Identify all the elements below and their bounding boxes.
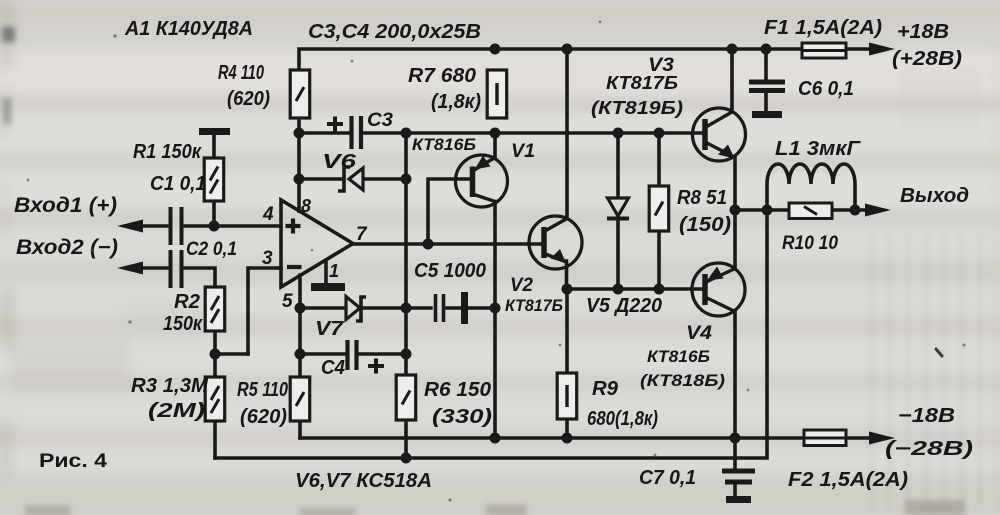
resistor R3 — [205, 377, 225, 421]
svg-text:5: 5 — [282, 291, 293, 312]
wire V3 emitter / V4 emitter column — [733, 157, 737, 269]
svg-text:С1 0,1: С1 0,1 — [150, 173, 206, 195]
wire op-amp pin 8 lead — [297, 179, 301, 211]
svg-text:С2 0,1: С2 0,1 — [186, 239, 237, 260]
capacitor C7 — [722, 438, 755, 503]
op-amp minus sign — [287, 265, 302, 269]
inductor L1 — [767, 164, 855, 210]
op-amp pin 1 stub and chassis bar — [324, 261, 328, 284]
resistor R9 — [557, 373, 577, 419]
arrow -18V — [869, 432, 895, 445]
zener V7 — [346, 297, 366, 322]
svg-text:R7 680: R7 680 — [408, 65, 476, 87]
op-amp plus sign — [286, 219, 301, 234]
svg-text:КТ817Б: КТ817Б — [606, 73, 678, 93]
capacitor C6 — [749, 49, 785, 118]
svg-text:(620): (620) — [240, 406, 287, 428]
wire inverting node line (R2/R3 to C4) — [215, 352, 406, 356]
svg-text:V7: V7 — [315, 318, 344, 340]
fuse F1 — [802, 43, 846, 58]
wire op-amp pin 5 / R5 column — [298, 275, 302, 438]
svg-text:R6 150: R6 150 — [424, 379, 491, 401]
svg-text:(−28В): (−28В) — [885, 438, 973, 460]
wire bottom common rail (R3 bottom to output feedback riser) — [215, 210, 767, 458]
capacitor C4 — [348, 340, 357, 370]
wire top +V rail — [299, 49, 872, 70]
svg-text:(+28В): (+28В) — [892, 48, 962, 70]
C3 plus sign — [327, 117, 343, 132]
arrow output — [865, 204, 891, 217]
svg-text:(150): (150) — [679, 214, 731, 236]
svg-text:R9: R9 — [592, 378, 619, 400]
transistor V4 — [692, 263, 745, 316]
svg-text:КТ816Б: КТ816Б — [412, 135, 476, 154]
capacitor C1 — [171, 207, 182, 245]
svg-text:(2М): (2М) — [148, 400, 205, 422]
wire V6 branch — [299, 133, 406, 179]
wire op-amp pin 3 jog — [248, 268, 281, 354]
wire V7 / C5 line — [300, 306, 495, 310]
svg-text:(620): (620) — [227, 88, 270, 110]
resistor R2 — [205, 287, 225, 331]
svg-text:R2: R2 — [174, 291, 200, 313]
svg-text:8: 8 — [301, 196, 311, 216]
wire R8 column — [657, 133, 661, 289]
capacitor C5 — [436, 294, 444, 322]
svg-text:V1: V1 — [511, 141, 535, 162]
transistor V3 — [693, 108, 746, 161]
arrow input 1 — [117, 220, 143, 233]
wire V5 column — [616, 133, 620, 289]
resistor R5 — [290, 377, 310, 421]
svg-text:R1 150к: R1 150к — [133, 141, 202, 163]
fuse F2 — [804, 430, 846, 446]
wire op-amp output to V2 base — [353, 242, 544, 246]
svg-text:Вход1 (+): Вход1 (+) — [14, 194, 117, 217]
svg-text:F2 1,5А(2А): F2 1,5А(2А) — [788, 469, 908, 491]
svg-text:7: 7 — [356, 224, 368, 245]
svg-text:V4: V4 — [686, 323, 712, 344]
svg-text:(1,8к): (1,8к) — [431, 91, 481, 113]
svg-text:R3 1,3М: R3 1,3М — [131, 375, 209, 397]
svg-text:С7 0,1: С7 0,1 — [639, 467, 696, 489]
transistor V2 — [529, 216, 582, 269]
wire -V rail (R5 bottom to F2) — [300, 436, 870, 440]
svg-text:4: 4 — [262, 204, 274, 225]
svg-text:КТ817Б: КТ817Б — [505, 296, 563, 315]
svg-text:А1 К140УД8А: А1 К140УД8А — [124, 18, 253, 40]
zener V6 — [338, 167, 363, 191]
resistor R8 — [649, 186, 669, 231]
svg-text:КТ816Б: КТ816Б — [647, 347, 710, 366]
svg-text:R5 110: R5 110 — [237, 379, 288, 401]
wire V2 emitter / R9 column — [565, 261, 569, 438]
diode V5 — [607, 198, 629, 219]
wire V1 base branch — [428, 179, 472, 244]
svg-text:V2: V2 — [510, 275, 533, 296]
transistor V1 — [456, 155, 508, 207]
wire R1/R2/R3 column — [214, 134, 215, 458]
resistor R10 — [789, 203, 832, 219]
arrow input 2 — [117, 262, 143, 275]
capacitor C3 — [352, 116, 362, 149]
chassis bar above R1 — [199, 128, 230, 135]
svg-text:(330): (330) — [432, 406, 492, 428]
C4 plus sign — [368, 359, 384, 374]
arrow +18V — [869, 43, 895, 56]
svg-text:1: 1 — [329, 261, 339, 281]
wire V3 collector to +V — [730, 49, 734, 112]
svg-text:С3,С4 200,0х25В: С3,С4 200,0х25В — [308, 21, 481, 43]
svg-text:(КТ818Б): (КТ818Б) — [640, 371, 725, 390]
svg-text:150к: 150к — [163, 313, 203, 335]
wire bootstrap column x=406 (C3/V6/V7/C4 to R6) — [404, 133, 408, 458]
wire input 1 line — [132, 224, 281, 228]
resistor R1 — [204, 158, 224, 201]
svg-text:680(1,8к): 680(1,8к) — [587, 408, 658, 430]
svg-text:R8 51: R8 51 — [677, 187, 727, 209]
svg-text:R10 10: R10 10 — [782, 233, 838, 254]
wire V2 collector to +V — [565, 49, 569, 218]
svg-text:Выход: Выход — [900, 185, 969, 207]
wire V4 base line — [567, 287, 705, 291]
svg-text:(КТ819Б): (КТ819Б) — [591, 98, 683, 118]
wire V3 base node line (R4 bottom to V3 base) — [299, 118, 701, 133]
svg-text:+18В: +18В — [897, 21, 949, 43]
resistor R7 — [487, 70, 507, 118]
svg-text:С6 0,1: С6 0,1 — [798, 78, 854, 100]
wire input 2 line — [132, 268, 215, 287]
wire V4 collector to -V — [733, 311, 737, 438]
svg-text:V5 Д220: V5 Д220 — [586, 295, 662, 317]
wire V1 emitter up / collector down — [493, 133, 497, 438]
svg-text:R4 110: R4 110 — [218, 62, 264, 84]
capacitor C2 — [171, 250, 182, 288]
svg-text:3: 3 — [262, 248, 273, 269]
svg-text:L1 3мкГ: L1 3мкГ — [775, 138, 862, 160]
svg-text:F1 1,5А(2А): F1 1,5А(2А) — [764, 17, 882, 39]
svg-text:С3: С3 — [367, 110, 393, 131]
svg-text:С4: С4 — [321, 357, 345, 379]
resistor R4 — [290, 70, 310, 118]
svg-text:V6,V7 КС518А: V6,V7 КС518А — [295, 470, 432, 492]
svg-text:С5 1000: С5 1000 — [414, 260, 486, 282]
svg-text:Рис. 4: Рис. 4 — [39, 451, 108, 472]
svg-text:V6: V6 — [322, 151, 357, 173]
svg-text:−18В: −18В — [898, 405, 955, 427]
resistor R6 — [396, 375, 416, 420]
op-amp A1 triangle — [281, 200, 353, 287]
wire output node line — [735, 208, 866, 212]
svg-text:Вход2 (−): Вход2 (−) — [16, 236, 118, 259]
